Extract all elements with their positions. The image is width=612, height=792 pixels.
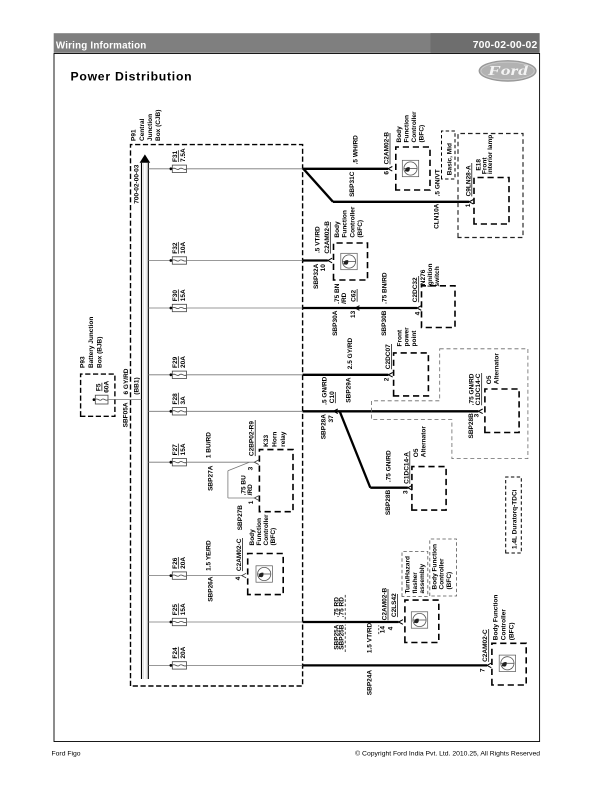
svg-text:C2AM02-B: C2AM02-B — [324, 221, 331, 254]
BFC symbol U2 — [341, 253, 357, 269]
Body Function Controller (BFC) box U3 — [248, 554, 284, 595]
BFC symbol U3 — [256, 566, 272, 582]
svg-text:700-02-00-03: 700-02-00-03 — [134, 164, 141, 203]
fuse label F28 — [172, 393, 187, 405]
svg-text:3: 3 — [248, 466, 255, 470]
wire SBP32A thick — [303, 259, 328, 261]
CJB label P91 Central Junction Box (CJB) — [131, 110, 163, 141]
E18 inner dashed box — [474, 178, 509, 225]
junction dot F24 — [170, 664, 173, 667]
svg-text:Battery Junction: Battery Junction — [88, 317, 95, 368]
connector C2AM02-C arrow (F26) — [242, 573, 246, 578]
connector name C2AM02-B — [384, 132, 391, 165]
svg-text:1.5 VT/RD: 1.5 VT/RD — [367, 622, 374, 653]
connector C2DC07 arrow — [388, 373, 392, 378]
fuse label F24 — [172, 646, 187, 658]
svg-text:SBF05A: SBF05A — [123, 402, 130, 427]
Turn/Hazard flasher assembly / BFC box U4 — [405, 600, 439, 642]
N276 Ignition switch dashed box — [422, 286, 456, 328]
wire SBF05A from F5 to bus — [108, 399, 142, 401]
svg-text:SBP24A: SBP24A — [367, 670, 374, 696]
svg-text:(BFC): (BFC) — [419, 125, 426, 143]
wire from bus to fuse F32 — [148, 260, 170, 262]
wire CLN10A diagonal — [303, 169, 333, 202]
connector name C2AM02-C (F24) — [482, 629, 489, 662]
O5 Alternator labels (upper) — [486, 353, 501, 385]
O5 Alternator labels (lower) — [413, 426, 428, 458]
svg-text:14: 14 — [380, 626, 387, 634]
K33 labels — [263, 431, 287, 447]
svg-text:1: 1 — [465, 203, 472, 207]
Front power point labels — [397, 327, 418, 347]
labels SBP25A / SBP25B — [333, 624, 345, 650]
label .75 BU /RD — [240, 475, 254, 496]
inline connector C62 arrow — [355, 306, 359, 311]
fuse label F27 — [172, 443, 187, 455]
svg-text:.75 GN/RD: .75 GN/RD — [385, 450, 392, 482]
fuse F31 7.5A — [172, 165, 186, 172]
svg-text:.75 BN/RD: .75 BN/RD — [382, 272, 389, 304]
wire SBP30A thick — [303, 307, 417, 309]
connector name C9LN28-A — [465, 163, 472, 196]
labels .75 RD / .75 RD — [333, 597, 345, 618]
svg-text:4: 4 — [235, 576, 242, 580]
connector name C2DC07 — [385, 344, 392, 369]
svg-text:F29: F29 — [172, 356, 179, 368]
BFC symbol U5 — [499, 655, 515, 671]
svg-text:Ford Figo: Ford Figo — [52, 751, 81, 758]
wire from bus to fuse F30 — [148, 307, 170, 309]
svg-text:1.4L Duratorq-TDCi: 1.4L Duratorq-TDCi — [511, 489, 518, 549]
Ford logo — [479, 61, 536, 81]
svg-text:C2BP02-R9: C2BP02-R9 — [249, 421, 256, 456]
svg-text:SBP27B: SBP27B — [237, 505, 244, 531]
svg-text:SBP25B: SBP25B — [339, 624, 346, 650]
variant bracket around BFC labels U4 — [430, 539, 457, 596]
N276 labels — [420, 264, 441, 287]
fuse label F29 — [172, 356, 187, 368]
connector name C1DC14-C — [475, 373, 482, 405]
header right dark box 700-02-00-02 — [431, 33, 540, 53]
svg-text:point: point — [411, 330, 418, 347]
O5 Alternator box (C1DC14-C) — [485, 389, 519, 433]
wire SBP24A thick — [303, 664, 487, 666]
junction dot F32 — [170, 259, 173, 262]
svg-text:F30: F30 — [172, 290, 179, 302]
wire from bus to fuse F24 — [148, 664, 170, 666]
wire SBP28A thick — [303, 410, 479, 412]
svg-text:Turn/Hazard: Turn/Hazard — [404, 556, 411, 593]
K33 Horn relay dashed box — [259, 450, 293, 512]
svg-text:C2AM02-C: C2AM02-C — [236, 538, 243, 571]
svg-text:4: 4 — [414, 311, 421, 315]
svg-text:F26: F26 — [172, 557, 179, 569]
svg-text:/RD: /RD — [341, 292, 348, 304]
svg-text:(BFC): (BFC) — [509, 622, 516, 640]
wire F27 inside CJB — [187, 461, 255, 463]
svg-text:.75 RD: .75 RD — [339, 597, 346, 618]
Body Function Controller (BFC) box U5 — [492, 643, 526, 685]
connector name C2DC32 — [412, 276, 419, 302]
connector C2BP02-R9 arrow pin 3 — [254, 460, 258, 465]
svg-text:C2DC32: C2DC32 — [412, 277, 419, 302]
svg-text:K33: K33 — [263, 434, 270, 446]
svg-text:Junction: Junction — [147, 114, 154, 141]
connector name C2BP02-R9 — [249, 420, 256, 456]
wire F24 inside CJB — [187, 664, 303, 666]
wire SBP27B branch — [228, 462, 254, 498]
svg-text:C2DC07: C2DC07 — [385, 344, 392, 369]
svg-text:Body Function: Body Function — [493, 595, 500, 641]
svg-text:Basic, Mid: Basic, Mid — [446, 143, 453, 175]
svg-text:.5 GN/VT: .5 GN/VT — [435, 169, 442, 196]
connector name C1DC14-A — [403, 451, 410, 484]
svg-text:interior lamp: interior lamp — [487, 135, 494, 174]
svg-text:O5: O5 — [413, 448, 420, 457]
connector C2AM02-B arrow (F32) — [328, 258, 332, 263]
junction dot F30 — [170, 307, 173, 310]
svg-text:SBP28B: SBP28B — [385, 490, 392, 516]
svg-text:.75 BN: .75 BN — [334, 283, 341, 304]
connector C2AM02-B arrow — [388, 167, 392, 172]
variant tag 1.4L Duratorq-TDCi — [506, 477, 522, 553]
svg-text:(BB1): (BB1) — [134, 377, 141, 394]
connector name C2AM02-C (F26) — [236, 538, 243, 571]
svg-text:.5 VT/RD: .5 VT/RD — [315, 226, 322, 253]
wire F31 inside CJB — [187, 168, 303, 170]
Body Function Controller (BFC) box U2 — [334, 243, 368, 280]
svg-text:relay: relay — [280, 431, 287, 447]
svg-text:flasher: flasher — [412, 572, 419, 594]
connector C1DC14-A arrow — [408, 485, 412, 490]
svg-text:C2AM02-B: C2AM02-B — [384, 132, 391, 165]
fuse F28 3A — [172, 408, 186, 415]
svg-text:13: 13 — [350, 310, 357, 318]
svg-text:N276: N276 — [420, 269, 427, 285]
fuse label F26 — [172, 557, 187, 569]
svg-text:C2LS42: C2LS42 — [391, 593, 398, 617]
connector name C10 — [329, 391, 336, 403]
svg-text:C2AM02-C: C2AM02-C — [482, 629, 489, 662]
svg-text:10: 10 — [320, 264, 327, 272]
P91 Central Junction Box (CJB) dashed box — [131, 145, 303, 686]
svg-text:20A: 20A — [180, 356, 187, 368]
E18 labels — [476, 135, 495, 174]
svg-text:.5 WH/RD: .5 WH/RD — [353, 135, 360, 165]
Front power point dashed box — [394, 353, 429, 396]
header bar Wiring Information — [54, 33, 540, 53]
svg-text:1: 1 — [248, 500, 255, 504]
connector C2DC32 arrow — [417, 306, 421, 311]
connector names C2AM02-B / C2LS42 — [382, 587, 398, 620]
svg-text:P91: P91 — [131, 129, 138, 141]
svg-text:15A: 15A — [180, 289, 187, 301]
svg-text:assembly: assembly — [419, 563, 426, 593]
O5 Alternator box (C1DC14-A) — [412, 467, 446, 511]
svg-text:O5: O5 — [486, 375, 493, 384]
wire from bus to fuse F28 — [148, 410, 170, 412]
svg-text:Box (BJB): Box (BJB) — [96, 337, 103, 368]
svg-text:Controller: Controller — [411, 111, 418, 143]
svg-text:(BFC): (BFC) — [357, 220, 364, 238]
BJB label P93 Battery Junction Box (BJB) — [79, 317, 103, 368]
wire F30 inside CJB — [187, 307, 303, 309]
wire SBP28B (to C1DC14-A) — [370, 487, 408, 489]
BFC labels U4 — [431, 544, 453, 590]
wire F28 inside CJB — [187, 410, 303, 412]
rotated schematic — [79, 110, 528, 696]
junction dot F31 — [170, 167, 173, 170]
BFC labels U5 — [493, 595, 516, 641]
wire from bus to fuse F26 — [148, 575, 170, 577]
svg-text:.5 GN/RD: .5 GN/RD — [322, 376, 329, 404]
svg-text:SBP32A: SBP32A — [313, 263, 320, 289]
wire from bus to fuse F31 — [148, 168, 170, 170]
svg-text:15A: 15A — [180, 603, 187, 615]
pins 14 / 4 — [380, 626, 395, 634]
svg-text:(BFC): (BFC) — [270, 528, 277, 546]
svg-text:Front: Front — [397, 329, 404, 346]
fuse label F31 — [172, 148, 187, 162]
junction dot F5 — [93, 398, 96, 401]
BFC labels U1 — [396, 111, 426, 143]
fuse label F5 60A — [95, 380, 110, 392]
svg-text:/RD: /RD — [247, 484, 254, 496]
svg-text:Power Distribution: Power Distribution — [71, 69, 193, 83]
svg-text:6: 6 — [384, 171, 391, 175]
svg-text:Body: Body — [334, 221, 341, 238]
svg-text:Controller: Controller — [501, 609, 508, 641]
fuse label F25 — [172, 603, 187, 615]
junction dot F28 — [170, 410, 173, 413]
variant tag Basic, Mid — [442, 131, 456, 179]
junction dot F29 — [170, 373, 173, 376]
svg-text:Ignition: Ignition — [427, 264, 434, 287]
wire from bus to fuse F27 — [148, 461, 170, 463]
svg-text:Body: Body — [396, 126, 403, 143]
svg-text:Box (CJB): Box (CJB) — [155, 110, 162, 141]
variant bracket around Turn/Hazard labels — [402, 552, 428, 597]
svg-text:Function: Function — [404, 115, 411, 142]
svg-text:2.5 GY/RD: 2.5 GY/RD — [347, 337, 354, 369]
svg-text:Wiring Information: Wiring Information — [56, 40, 147, 51]
fuse F25 15A — [172, 618, 186, 625]
svg-text:Horn: Horn — [271, 432, 278, 447]
svg-text:3: 3 — [474, 413, 481, 417]
connector C1DC14-C arrow — [478, 409, 482, 414]
svg-text:SBP27A: SBP27A — [207, 465, 214, 491]
svg-text:P93: P93 — [79, 356, 86, 368]
content frame — [54, 54, 540, 742]
svg-text:1.5 YE/RD: 1.5 YE/RD — [206, 540, 213, 571]
svg-text:SBP31C: SBP31C — [349, 171, 356, 197]
fuse F26 20A — [172, 572, 186, 579]
svg-text:2: 2 — [384, 377, 391, 381]
svg-text:(BFC): (BFC) — [446, 572, 453, 590]
svg-text:C10: C10 — [329, 391, 336, 403]
svg-text:6 GY/RD: 6 GY/RD — [123, 368, 130, 394]
bracket tick pins — [378, 625, 380, 634]
BFC symbol U4 (solid square) — [411, 612, 427, 628]
svg-text:7: 7 — [480, 668, 487, 672]
svg-text:Body Function: Body Function — [431, 544, 438, 590]
svg-text:Alternator: Alternator — [494, 353, 501, 385]
svg-text:Controller: Controller — [439, 558, 446, 590]
fuse F5 60A — [95, 395, 108, 404]
svg-text:700-02-00-02: 700-02-00-02 — [473, 40, 538, 51]
svg-text:SBP30B: SBP30B — [381, 310, 388, 336]
svg-text:Body: Body — [249, 529, 256, 546]
connector name C2AM02-B (F32) — [324, 221, 331, 254]
svg-text:20A: 20A — [180, 557, 187, 569]
svg-text:C2AM02-B: C2AM02-B — [382, 587, 389, 620]
svg-text:F25: F25 — [172, 604, 179, 616]
P93 Battery Junction Box (BJB) dashed box — [81, 374, 115, 416]
Turn/Hazard flasher assembly labels — [404, 556, 426, 593]
svg-text:F28: F28 — [172, 393, 179, 405]
junction dot F26 — [170, 574, 173, 577]
svg-text:1 BU/RD: 1 BU/RD — [206, 432, 213, 458]
svg-text:Function: Function — [256, 518, 263, 545]
wire from bus to fuse F25 — [148, 621, 170, 623]
svg-text:15A: 15A — [180, 443, 187, 455]
svg-text:F24: F24 — [172, 647, 179, 659]
svg-text:switch: switch — [434, 266, 441, 286]
svg-text:Ford: Ford — [486, 63, 528, 78]
BFC labels U2 — [334, 206, 364, 238]
connector name C62 — [351, 289, 358, 302]
svg-text:F27: F27 — [172, 444, 179, 456]
svg-text:20A: 20A — [180, 646, 187, 658]
wire F29 inside CJB — [187, 374, 303, 376]
bus arrow head — [140, 154, 151, 162]
wire CLN10A thick — [333, 201, 469, 203]
wire F25 inside CJB — [187, 621, 303, 623]
connector arrow pin 1 — [254, 496, 258, 501]
svg-text:C1DC14-C: C1DC14-C — [475, 373, 482, 405]
wire from bus to fuse F29 — [148, 374, 170, 376]
wire F32 inside CJB — [187, 260, 303, 262]
inline connector C10 arrow — [334, 409, 338, 414]
wire SBP31C thick — [303, 168, 388, 170]
fuse F29 20A — [172, 371, 186, 378]
svg-text:C1DC14-A: C1DC14-A — [403, 452, 410, 484]
svg-text:10A: 10A — [180, 241, 187, 253]
svg-text:Central: Central — [139, 118, 146, 141]
fuse label F32 — [172, 241, 187, 253]
svg-text:7.5A: 7.5A — [180, 148, 187, 162]
connector arrow (F25) — [399, 620, 403, 625]
wire SBP29A thick — [303, 374, 389, 376]
wire SBP25A/SBP25B thick — [303, 621, 399, 623]
BFC symbol U1 — [402, 160, 418, 176]
fuse F32 10A — [172, 257, 186, 264]
svg-text:CLN10A: CLN10A — [433, 203, 440, 229]
svg-text:F32: F32 — [172, 242, 179, 254]
fuse F30 15A — [172, 304, 186, 311]
svg-text:F5: F5 — [95, 383, 102, 391]
bus bar (BB1) power feed — [142, 163, 149, 679]
svg-text:Alternator: Alternator — [421, 426, 428, 458]
svg-text:3: 3 — [402, 490, 409, 494]
E18 Front interior lamp outer dashed box — [458, 134, 523, 238]
wire SBP28B diagonal — [340, 411, 371, 487]
svg-text:60A: 60A — [103, 380, 110, 392]
svg-text:power: power — [404, 327, 411, 347]
fuse F27 15A — [172, 459, 186, 466]
svg-text:Controller: Controller — [263, 514, 270, 546]
connector C9LN28-A arrow — [469, 200, 473, 205]
svg-text:C9LN28-A: C9LN28-A — [465, 165, 472, 196]
svg-text:SBP26A: SBP26A — [207, 576, 214, 602]
svg-text:4: 4 — [388, 626, 395, 630]
wire F26 inside CJB — [187, 575, 242, 577]
junction dot F25 — [170, 621, 173, 624]
svg-text:37: 37 — [328, 415, 335, 423]
svg-text:Function: Function — [342, 210, 349, 237]
label .75 BN/RD (two lines) — [334, 283, 348, 304]
svg-text:3A: 3A — [180, 396, 187, 405]
fuse F24 20A — [172, 662, 186, 669]
variant thin dashed polygon (1.4L Duratorq-TDCi group) — [372, 349, 528, 459]
svg-text:Controller: Controller — [349, 206, 356, 238]
svg-text:SBP30A: SBP30A — [332, 310, 339, 336]
junction dot F27 — [170, 461, 173, 464]
connector C2AM02-C arrow (F24) — [487, 663, 491, 668]
svg-text:SBP29A: SBP29A — [345, 377, 352, 403]
svg-text:F31: F31 — [172, 150, 179, 162]
svg-text:© Copyright Ford India Pvt. Lt: © Copyright Ford India Pvt. Ltd. 2010.25… — [355, 750, 540, 758]
fuse label F30 — [172, 289, 187, 301]
variant bracket dashes (SBP25B row) — [344, 594, 346, 652]
svg-text:SBP28A: SBP28A — [321, 414, 328, 440]
BFC labels U3 — [249, 514, 277, 546]
Body Function Controller (BFC) box U1 — [396, 147, 430, 190]
svg-text:C62: C62 — [351, 289, 358, 301]
